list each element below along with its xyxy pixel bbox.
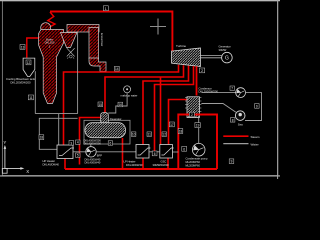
legend steam — [223, 135, 260, 139]
svg-text:Y: Y — [3, 140, 6, 145]
svg-text:Deaerator: Deaerator — [110, 117, 122, 121]
svg-text:7: 7 — [231, 87, 233, 91]
water line: lower loop — [39, 118, 77, 149]
water line: CW discharge loop — [245, 93, 262, 121]
water line: HP heater to BFP — [73, 151, 86, 153]
superheater header bar — [67, 25, 99, 33]
legend water — [223, 142, 258, 146]
svg-text:Steam: Steam — [251, 135, 260, 139]
svg-text:10: 10 — [132, 133, 136, 137]
boiler B1 (drum + furnace body) — [39, 23, 64, 104]
node 18 tag box — [39, 135, 44, 140]
svg-text:14: 14 — [115, 67, 119, 71]
svg-text:15: 15 — [99, 103, 103, 107]
svg-text:5: 5 — [77, 154, 79, 158]
node 13 tag box — [20, 45, 25, 50]
svg-text:DKL40/DW40: DKL40/DW40 — [126, 163, 143, 167]
node 17 tag box on GSC feed — [170, 122, 175, 127]
water line: tank drain — [34, 71, 36, 113]
node 6b tag box left of pump — [182, 146, 187, 151]
wire: condensate red loop — [178, 115, 217, 170]
svg-text:Sea: Sea — [238, 122, 243, 126]
svg-text:ML200NP60: ML200NP60 — [186, 163, 201, 167]
water line: feed header — [35, 113, 77, 115]
wire: bottom drain header — [65, 168, 217, 170]
water line: deaerator to BFP — [90, 144, 92, 147]
svg-text:HP Heater: HP Heater — [43, 159, 56, 163]
svg-text:8: 8 — [232, 118, 234, 122]
water line: condenser to CW pump — [201, 92, 235, 94]
node 12b tag box — [162, 132, 167, 137]
LP heater E2 — [124, 145, 151, 167]
pump CW — [236, 88, 246, 98]
wire: boiler blowdown line — [27, 38, 40, 58]
blowdown tank — [6, 58, 36, 84]
GSC E3 — [153, 145, 174, 167]
node 10 tag box — [131, 132, 136, 137]
node 11 tag box — [28, 95, 33, 100]
economizer duct (vertical + elbow foot) — [89, 28, 106, 72]
deaerator tank — [84, 117, 126, 145]
svg-text:2: 2 — [201, 69, 203, 73]
svg-text:2: 2 — [191, 113, 193, 117]
svg-text:11: 11 — [29, 96, 33, 100]
wire: extraction D — [155, 66, 194, 151]
water line: economizer feed — [77, 33, 79, 114]
water line: makeup to deaerator — [108, 93, 127, 113]
wire: LP heater drain riser — [142, 158, 144, 169]
water line: BFP to LP heater — [96, 151, 136, 153]
node 9 tag box right of loop — [229, 159, 234, 164]
svg-text:DKL40/DW40: DKL40/DW40 — [85, 161, 101, 165]
svg-text:G: G — [225, 56, 229, 62]
svg-text:Economiser: Economiser — [100, 33, 103, 46]
svg-text:4: 4 — [77, 141, 79, 145]
svg-text:3: 3 — [70, 141, 72, 145]
node 6 tag box between heaters — [152, 151, 157, 156]
svg-text:DKL40/DW200: DKL40/DW200 — [84, 142, 102, 146]
node 2 tag box at turbine exhaust — [200, 68, 205, 73]
wire: extraction A to HP heater — [64, 65, 179, 145]
crosshair cursor — [150, 19, 166, 35]
node 3 tag box — [69, 141, 74, 146]
svg-text:LP Heater: LP Heater — [124, 160, 136, 164]
drawing frame (decorative) — [2, 1, 277, 176]
svg-text:X: X — [26, 169, 29, 174]
node 14 tag box on extraction A — [115, 66, 120, 71]
node 15 tag box on deaerator steam feed — [98, 102, 103, 107]
sea sink — [235, 111, 245, 127]
turbine — [172, 44, 201, 67]
svg-text:6: 6 — [154, 152, 156, 156]
wire: main steam line boiler to turbine — [50, 12, 172, 52]
svg-text:6: 6 — [110, 142, 112, 146]
svg-text:Water: Water — [251, 142, 259, 146]
generator G — [219, 45, 233, 63]
svg-text:9: 9 — [256, 104, 258, 108]
svg-text:30MW/DW40: 30MW/DW40 — [153, 163, 169, 167]
node 11b tag box — [147, 132, 152, 137]
node 16 tag box on makeup line — [118, 102, 123, 107]
burner bowtie symbol — [67, 48, 75, 59]
wire: GSC drain riser — [167, 158, 169, 169]
water line: GSC to loop — [172, 151, 178, 153]
svg-text:12: 12 — [27, 61, 31, 65]
pump condensate — [186, 143, 208, 167]
water line: condenser to sea — [201, 104, 236, 113]
svg-text:13: 13 — [21, 45, 25, 49]
svg-text:GSC: GSC — [161, 160, 167, 164]
svg-text:6: 6 — [183, 147, 185, 151]
svg-text:DKL40/DW40: DKL40/DW40 — [43, 163, 60, 167]
UCS icon — [2, 140, 29, 174]
water line: LP to GSC — [149, 151, 160, 153]
svg-text:makeup water: makeup water — [121, 93, 138, 97]
svg-text:11: 11 — [148, 133, 152, 137]
svg-text:17: 17 — [170, 123, 174, 127]
svg-text:30MW: 30MW — [219, 48, 227, 52]
flame zigzag at boiler top — [48, 12, 55, 32]
pump BFP — [85, 147, 103, 165]
svg-text:18: 18 — [179, 130, 183, 134]
node 7 tag box — [230, 86, 235, 91]
svg-text:Turbine: Turbine — [176, 44, 186, 48]
wire: condenser to GSC feed — [169, 100, 188, 145]
deaerator head — [101, 113, 109, 124]
svg-text:BFP: BFP — [97, 153, 102, 157]
deaerator enclosure — [84, 120, 130, 144]
wire: deaerator head drain — [80, 118, 101, 165]
wire: HP heater drain riser — [64, 159, 66, 170]
svg-text:1: 1 — [105, 7, 107, 11]
wire: extraction B to deaerator head — [105, 65, 184, 112]
svg-text:12: 12 — [162, 133, 166, 137]
node 5b tag box above BFP line — [108, 141, 112, 146]
node 5 tag box on loop top — [189, 112, 194, 117]
makeup water source — [121, 86, 138, 98]
svg-text:19: 19 — [196, 124, 200, 128]
water line: condenser to condensate pump — [198, 118, 200, 143]
wire: turbine exhaust to condenser — [196, 66, 198, 95]
node 8 tag box — [230, 118, 235, 123]
svg-text:9: 9 — [231, 160, 233, 164]
generator shaft — [200, 56, 221, 58]
node 9b tag box on cooling loop — [255, 104, 260, 109]
node 5 tag box — [76, 153, 80, 158]
svg-text:16: 16 — [119, 103, 123, 107]
node 1 tag box on main steam line — [103, 6, 108, 11]
superheater hopper — [61, 33, 78, 48]
wire: branch B to GSC left — [160, 77, 162, 145]
svg-text:DKL200/DW200: DKL200/DW200 — [10, 80, 31, 84]
svg-text:18: 18 — [40, 136, 44, 140]
node 18b tag box on loop left — [178, 129, 183, 134]
HP heater E1 — [43, 145, 75, 167]
wire: extraction C to LP heater — [143, 66, 189, 145]
node 19 tag box — [195, 123, 200, 128]
condenser — [185, 86, 218, 117]
wire: deaerator drain riser — [122, 138, 124, 169]
water line: to HP heater — [58, 114, 60, 145]
node 4 tag box — [76, 140, 80, 145]
